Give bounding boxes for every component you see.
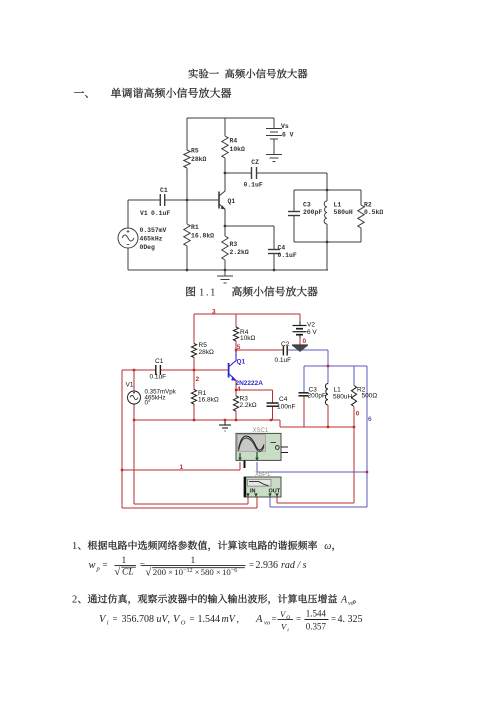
svg-text:L1: L1 (334, 202, 342, 209)
svg-text:=: = (249, 560, 254, 570)
svg-text:=: = (103, 560, 108, 570)
svg-text:4: 4 (237, 386, 241, 393)
svg-text:C1: C1 (160, 187, 168, 194)
svg-text:0.357: 0.357 (306, 622, 327, 632)
svg-text:A: A (340, 595, 348, 606)
svg-text:16.8kΩ: 16.8kΩ (191, 233, 214, 240)
svg-text:0.357mV: 0.357mV (140, 227, 167, 234)
svg-text:R1: R1 (191, 224, 199, 231)
svg-text:=: = (331, 614, 336, 624)
svg-text:√: √ (145, 566, 152, 578)
svg-text:0: 0 (303, 338, 307, 345)
svg-text:=: = (140, 560, 145, 570)
svg-text:5: 5 (237, 344, 241, 351)
svg-text:1.1: 1.1 (199, 288, 217, 299)
svg-text:=: = (190, 614, 195, 624)
svg-text:R5: R5 (199, 342, 208, 349)
svg-text:C3: C3 (303, 202, 311, 209)
svg-text:0Deg: 0Deg (140, 244, 156, 251)
svg-text:R4: R4 (230, 138, 238, 145)
svg-text:V1: V1 (140, 210, 148, 217)
svg-text:580uH: 580uH (333, 394, 352, 401)
svg-text:R3: R3 (230, 241, 238, 248)
svg-text:R5: R5 (191, 148, 199, 155)
svg-text:0.1uF: 0.1uF (150, 374, 167, 381)
svg-text:28kΩ: 28kΩ (199, 349, 214, 356)
svg-text:R2: R2 (364, 202, 372, 209)
svg-text:XSC1: XSC1 (253, 428, 269, 434)
svg-text:2.2kΩ: 2.2kΩ (230, 249, 249, 256)
svg-text:,: , (168, 614, 171, 625)
svg-text:V1: V1 (126, 382, 134, 389)
svg-text:2: 2 (72, 595, 77, 606)
svg-text:O: O (286, 615, 290, 621)
svg-text:C1: C1 (155, 358, 164, 365)
svg-text:C4: C4 (279, 396, 288, 403)
svg-text:=: = (113, 614, 118, 624)
svg-text:200pF: 200pF (303, 209, 322, 216)
svg-text:C2: C2 (281, 341, 290, 348)
svg-text:100nF: 100nF (277, 404, 295, 411)
svg-text:A: A (255, 614, 263, 625)
svg-text:0.1uF: 0.1uF (278, 252, 297, 259)
svg-text:mV: mV (222, 614, 237, 625)
svg-text:2.936: 2.936 (256, 560, 279, 571)
svg-text:16.8kΩ: 16.8kΩ (198, 397, 219, 404)
svg-text:0.1uF: 0.1uF (275, 357, 292, 364)
svg-text:356.708: 356.708 (122, 614, 155, 625)
svg-text:6 V: 6 V (282, 132, 294, 139)
svg-text:2: 2 (196, 376, 200, 383)
svg-text:1.544: 1.544 (198, 614, 221, 625)
svg-text:Vs: Vs (281, 123, 289, 130)
svg-text:1: 1 (180, 464, 184, 471)
svg-text:V2: V2 (307, 322, 315, 329)
svg-text:0: 0 (356, 411, 360, 418)
svg-text:√: √ (114, 566, 121, 578)
svg-text:O: O (181, 620, 186, 627)
svg-text:V: V (173, 614, 181, 625)
svg-text:CZ: CZ (251, 159, 259, 166)
svg-text:Q1: Q1 (228, 198, 236, 205)
svg-text:=: = (296, 614, 301, 624)
svg-text:2.2kΩ: 2.2kΩ (240, 402, 257, 409)
svg-text:p: p (96, 566, 101, 573)
svg-text:200×10−12×580×10−6: 200×10−12×580×10−6 (153, 567, 238, 577)
svg-text:1.544: 1.544 (306, 609, 327, 619)
svg-text:0°: 0° (145, 400, 151, 407)
svg-text:XBP1: XBP1 (255, 472, 271, 478)
svg-text:Q1: Q1 (237, 359, 246, 366)
svg-text:10kΩ: 10kΩ (230, 146, 246, 153)
svg-text:L1: L1 (334, 387, 342, 394)
svg-text:6 V: 6 V (307, 329, 317, 336)
svg-text:vo: vo (264, 620, 271, 627)
svg-text:500Ω: 500Ω (362, 393, 378, 400)
svg-text:28kΩ: 28kΩ (191, 156, 207, 163)
svg-text:1: 1 (122, 556, 127, 566)
svg-text:1: 1 (191, 556, 196, 566)
svg-text:0.5kΩ: 0.5kΩ (364, 209, 383, 216)
svg-text:3: 3 (212, 309, 216, 316)
svg-text:,: , (237, 614, 240, 625)
svg-text:V: V (99, 614, 107, 625)
svg-text:580uH: 580uH (334, 209, 353, 216)
svg-text:=: = (272, 614, 277, 624)
svg-text:0.1uF: 0.1uF (244, 182, 263, 189)
svg-text:0.1uF: 0.1uF (151, 210, 170, 217)
svg-text:6: 6 (368, 416, 372, 423)
svg-text:465kHz: 465kHz (140, 236, 163, 243)
svg-text:10kΩ: 10kΩ (240, 335, 255, 342)
svg-text:w: w (89, 560, 96, 571)
svg-text:i: i (287, 628, 289, 634)
svg-text:rad / s: rad / s (281, 560, 307, 571)
svg-text:1: 1 (72, 541, 77, 552)
svg-text:vo: vo (348, 601, 354, 607)
svg-text:C4: C4 (278, 244, 286, 251)
svg-text:200pF: 200pF (308, 393, 326, 400)
svg-text:ω: ω (324, 541, 331, 552)
svg-text:CL: CL (122, 568, 134, 578)
svg-text:i: i (107, 620, 109, 627)
svg-text:4. 325: 4. 325 (338, 614, 363, 625)
